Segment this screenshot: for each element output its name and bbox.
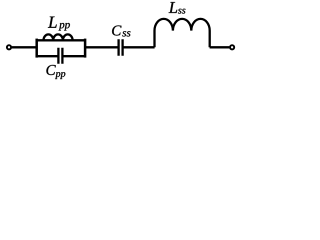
wire [210,46,230,48]
wire [36,55,59,57]
wire [12,46,37,48]
value label Lpp [48,17,70,31]
value label Cpp [46,65,65,79]
terminal right [230,45,234,49]
terminal left [7,45,11,49]
value label Css [112,25,130,36]
wire [36,39,86,41]
wire [63,55,86,57]
wire [85,46,118,48]
value label Lss [169,2,186,14]
inductor Lpp [44,34,73,40]
node B (right junction bar) [84,39,87,58]
node A (left junction bar) [35,39,38,58]
capacitor Cpp [58,48,62,64]
wire [123,46,155,48]
capacitor Css [119,39,123,56]
inductor Lss [155,19,210,47]
